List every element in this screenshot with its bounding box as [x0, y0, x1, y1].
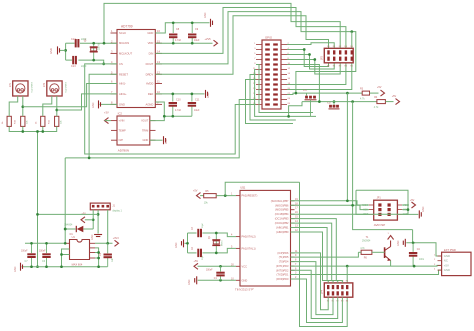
svg-text:GND: GND [49, 48, 53, 54]
svg-text:RESET: RESET [119, 72, 128, 76]
svg-text:GND: GND [188, 279, 191, 285]
svg-text:8MHz: 8MHz [222, 240, 224, 246]
svg-text:TEMP: TEMP [119, 128, 126, 132]
svg-text:22pF: 22pF [202, 222, 204, 228]
svg-text:GND: GND [175, 242, 178, 248]
svg-text:PA0(XTAL2): PA0(XTAL2) [242, 235, 256, 239]
svg-text:1uF: 1uF [112, 257, 114, 262]
svg-text:1N4004: 1N4004 [64, 224, 73, 227]
svg-text:O/P: O/P [119, 138, 124, 142]
svg-text:GND: GND [242, 278, 248, 282]
svg-text:100uF: 100uF [21, 251, 28, 253]
svg-text:GND: GND [14, 266, 17, 272]
svg-text:+5V: +5V [410, 199, 415, 202]
svg-text:+5V: +5V [194, 260, 199, 263]
svg-text:U$1: U$1 [240, 186, 246, 190]
svg-text:22pF: 22pF [81, 38, 87, 41]
svg-text:(OC1B)PB4: (OC1B)PB4 [275, 212, 289, 216]
svg-text:C10: C10 [176, 98, 181, 101]
svg-text:4.7k: 4.7k [374, 106, 379, 109]
svg-text:AVDD: AVDD [146, 82, 153, 86]
svg-text:MAX 604: MAX 604 [72, 263, 83, 267]
svg-text:AD780N: AD780N [118, 149, 129, 153]
svg-text:+5V: +5V [193, 190, 198, 193]
svg-text:GND: GND [422, 206, 425, 212]
svg-text:(T1)PD5: (T1)PD5 [279, 255, 289, 259]
svg-text:C11: C11 [195, 98, 200, 101]
svg-text:SCLK: SCLK [119, 31, 126, 35]
svg-text:display 1: display 1 [112, 210, 122, 213]
svg-text:AIN1+: AIN1+ [119, 92, 127, 96]
svg-text:12AV17PS: 12AV17PS [30, 82, 33, 93]
svg-text:GND: GND [165, 138, 168, 144]
svg-text:10uF: 10uF [194, 39, 200, 42]
svg-text:100nF: 100nF [39, 251, 46, 253]
svg-text:(ICP)PD6: (ICP)PD6 [277, 251, 289, 255]
svg-text:22pF: 22pF [202, 254, 204, 260]
svg-text:(T0)PD4: (T0)PD4 [279, 260, 289, 264]
svg-text:AVR ISP: AVR ISP [374, 223, 386, 227]
svg-text:GND: GND [207, 92, 210, 98]
svg-text:(INT0)PD2: (INT0)PD2 [276, 268, 289, 272]
svg-text:GND: GND [444, 268, 450, 272]
svg-text:GND: GND [143, 138, 149, 142]
svg-text:GND: GND [444, 254, 450, 258]
svg-text:(SCK/SCL)PB7: (SCK/SCL)PB7 [271, 199, 289, 203]
svg-text:+3V3: +3V3 [113, 237, 120, 240]
svg-text:(AIN0)PB0: (AIN0)PB0 [276, 230, 289, 234]
svg-text:GND: GND [397, 240, 400, 246]
svg-text:22pF: 22pF [81, 65, 87, 68]
svg-text:NC: NC [444, 259, 448, 263]
svg-text:GPIO: GPIO [265, 36, 273, 40]
svg-text:GND: GND [147, 31, 153, 35]
svg-text:(OC1A)PB3: (OC1A)PB3 [275, 217, 289, 221]
svg-text:4.7k: 4.7k [360, 98, 365, 101]
svg-text:IC2: IC2 [118, 112, 123, 116]
svg-text:TRIM: TRIM [142, 128, 148, 132]
svg-text:+VIN: +VIN [119, 119, 125, 123]
svg-text:C13: C13 [71, 65, 76, 68]
svg-text:(MOSI)PB5: (MOSI)PB5 [275, 208, 289, 212]
svg-text:VDD: VDD [148, 41, 154, 45]
svg-text:VCC: VCC [242, 264, 248, 268]
svg-text:REF: REF [148, 92, 154, 96]
svg-text:GND: GND [92, 102, 95, 108]
svg-text:(TXD)PD1: (TXD)PD1 [277, 273, 290, 277]
svg-text:4.7uF: 4.7uF [175, 109, 182, 112]
svg-text:GND: GND [204, 12, 207, 18]
svg-text:GND: GND [119, 102, 125, 106]
svg-text:100nF: 100nF [206, 270, 213, 272]
svg-text:(INT1)PD3: (INT1)PD3 [276, 264, 289, 268]
svg-text:+5V: +5V [377, 86, 382, 89]
svg-text:TINY2313 S"P": TINY2313 S"P" [235, 288, 254, 292]
svg-text:EXT PWR: EXT PWR [444, 248, 456, 252]
svg-text:100n: 100n [419, 259, 425, 261]
svg-text:+3V: +3V [104, 110, 109, 114]
svg-text:JP1: JP1 [377, 197, 382, 200]
svg-text:PA1(XTAL1): PA1(XTAL1) [242, 246, 256, 250]
svg-text:MCLKOUT: MCLKOUT [119, 51, 132, 55]
svg-text:(MISO)PB6: (MISO)PB6 [275, 203, 289, 207]
svg-text:DRDY: DRDY [146, 72, 154, 76]
svg-text:JP1: JP1 [9, 82, 12, 87]
svg-text:AGND: AGND [146, 102, 154, 106]
svg-text:PA2(/RESET): PA2(/RESET) [242, 194, 258, 198]
svg-text:JP2: JP2 [43, 82, 46, 87]
svg-text:MCLKIN: MCLKIN [119, 41, 129, 45]
svg-text:10uF: 10uF [194, 109, 200, 112]
svg-text:C12: C12 [71, 38, 76, 41]
svg-text:DIN: DIN [149, 51, 154, 55]
svg-text:GND: GND [91, 234, 94, 240]
svg-text:(RXD)PD0: (RXD)PD0 [276, 277, 289, 281]
svg-text:AIN1-: AIN1- [119, 82, 126, 86]
svg-text:+5V: +5V [392, 95, 397, 98]
svg-text:2N3904: 2N3904 [362, 240, 371, 243]
svg-text:DOUT: DOUT [146, 62, 154, 66]
svg-text:(OC0A)PB2: (OC0A)PB2 [275, 221, 289, 225]
svg-text:(AIN1)PB1: (AIN1)PB1 [276, 226, 289, 230]
svg-text:12AV17PS: 12AV17PS [64, 82, 67, 93]
svg-text:CS: CS [119, 62, 123, 66]
svg-text:VOUT: VOUT [141, 119, 149, 123]
svg-text:32kHz: 32kHz [98, 42, 101, 50]
svg-text:4.7uF: 4.7uF [175, 39, 182, 42]
svg-text:+5V: +5V [444, 263, 449, 267]
svg-text:+2V5: +2V5 [205, 37, 212, 41]
svg-text:AD7799: AD7799 [121, 25, 133, 29]
